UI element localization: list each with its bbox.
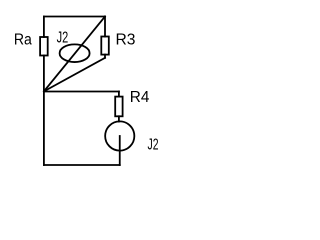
wire bottom xyxy=(44,164,120,166)
wire R4 bottom stub xyxy=(118,116,120,121)
source J2 (ellipse symbol on diagonal) xyxy=(57,29,90,62)
svg-text:R4: R4 xyxy=(130,89,150,106)
wire right upper xyxy=(104,17,106,37)
resistor R4 xyxy=(115,89,150,116)
wire down to R4 xyxy=(118,92,120,97)
wire left middle xyxy=(43,56,45,92)
wire left lower xyxy=(43,91,45,165)
wire R3 bottom stub xyxy=(104,55,106,58)
wire horizontal from node A xyxy=(44,91,119,93)
wire diagonal from node A to top-right corner xyxy=(44,17,105,92)
svg-text:J2: J2 xyxy=(57,29,69,46)
wire top xyxy=(44,16,105,18)
svg-text:Ra: Ra xyxy=(14,32,32,49)
source J2 (circle symbol) xyxy=(105,121,158,165)
wire left upper xyxy=(43,17,45,38)
svg-text:J2: J2 xyxy=(148,136,159,153)
svg-text:R3: R3 xyxy=(116,32,136,49)
resistor Ra xyxy=(14,32,48,56)
wire diagonal from R3 to node A xyxy=(44,58,105,92)
resistor R3 xyxy=(101,32,135,55)
